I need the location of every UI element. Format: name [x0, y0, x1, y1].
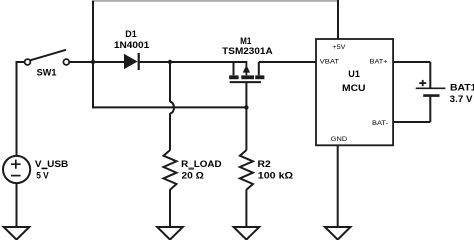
svg-text:GND: GND	[331, 136, 348, 143]
svg-text:R_LOAD: R_LOAD	[181, 159, 222, 169]
svg-text:MCU: MCU	[342, 83, 366, 93]
svg-text:BAT1: BAT1	[450, 83, 474, 93]
svg-text:3.7 V: 3.7 V	[450, 94, 473, 104]
svg-text:M1: M1	[240, 36, 251, 46]
svg-text:5 V: 5 V	[36, 170, 49, 180]
svg-text:U1: U1	[348, 69, 360, 79]
svg-text:20 Ω: 20 Ω	[182, 171, 204, 181]
svg-text:D1: D1	[125, 29, 137, 39]
svg-text:+5V: +5V	[332, 44, 346, 51]
svg-text:100 kΩ: 100 kΩ	[258, 170, 293, 180]
svg-text:BAT+: BAT+	[370, 59, 388, 66]
svg-text:TSM2301A: TSM2301A	[222, 46, 273, 56]
svg-text:BAT-: BAT-	[372, 120, 388, 127]
svg-text:V_USB: V_USB	[35, 159, 69, 169]
svg-text:VBAT: VBAT	[320, 59, 340, 66]
svg-text:SW1: SW1	[37, 67, 57, 77]
svg-text:R2: R2	[258, 159, 271, 169]
svg-text:1N4001: 1N4001	[114, 40, 149, 50]
